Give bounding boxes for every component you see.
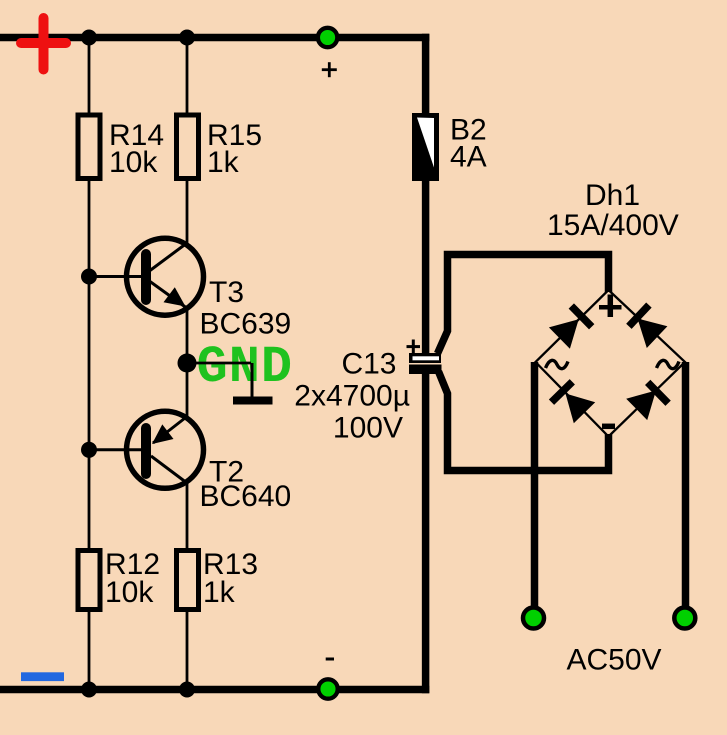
wire: left rail segment R14 to R12 xyxy=(88,180,91,549)
svg-text:BC639: BC639 xyxy=(200,308,292,341)
svg-text:1k: 1k xyxy=(203,576,236,609)
wire: T2 collector to R13 xyxy=(186,481,189,549)
ground xyxy=(233,397,273,405)
diode lower-left (from minus) xyxy=(566,394,596,424)
wire: top positive rail xyxy=(0,34,429,42)
node: top green terminal xyxy=(318,28,337,47)
diode lower-right (from minus) xyxy=(626,391,656,421)
svg-text:10k: 10k xyxy=(105,576,154,609)
svg-text:AC50V: AC50V xyxy=(567,644,662,677)
fuse B2 xyxy=(412,113,439,181)
wire: main vertical (fuse/cap branch) upper part xyxy=(422,34,430,355)
wire: T3 base connection xyxy=(89,275,146,278)
junction: top rail / right rail xyxy=(179,30,195,46)
wire: AC right lead xyxy=(682,362,690,608)
label minus inside bridge xyxy=(602,424,615,430)
wire: T2 base connection xyxy=(89,448,146,451)
junction: T2 base xyxy=(81,442,97,458)
wire: AC left lead xyxy=(531,362,539,608)
svg-text:C13: C13 xyxy=(341,348,396,381)
wire: diamond edges xyxy=(536,290,686,437)
svg-text:1k: 1k xyxy=(207,146,240,179)
svg-text:BC640: BC640 xyxy=(200,480,292,513)
label small minus at bottom node xyxy=(326,658,334,661)
svg-text:15A/400V: 15A/400V xyxy=(547,209,679,242)
wire: right rail segment R15 to T3 xyxy=(186,180,189,244)
wire: bottom negative rail xyxy=(0,686,429,694)
wire: branch to bridge plus (diagonal, up, right, down) xyxy=(438,255,609,354)
svg-text:4A: 4A xyxy=(450,141,487,174)
wire: T3 emitter to T2 collector (through GND node) xyxy=(186,306,189,418)
svg-text:100V: 100V xyxy=(333,412,403,445)
terminal: red plus (positive output) xyxy=(21,18,66,70)
label plus inside bridge xyxy=(599,295,622,318)
bridge rectifier Dh1 xyxy=(536,290,686,437)
resistor R13 xyxy=(177,551,199,610)
svg-text:Dh1: Dh1 xyxy=(585,179,640,212)
node: AC left terminal xyxy=(523,608,544,629)
wire: GND stub horizontal xyxy=(187,362,251,365)
diode upper-left (to plus) xyxy=(549,319,579,349)
resistor R14 xyxy=(78,115,100,179)
resistor R12 xyxy=(78,551,100,610)
svg-text:10k: 10k xyxy=(109,146,158,179)
junction: bottom rail / left rail xyxy=(81,682,97,698)
transistor T3 BC639 xyxy=(127,238,204,315)
diode upper-right (to plus) xyxy=(638,319,668,349)
terminal: blue minus (negative output) xyxy=(21,672,64,681)
wire: main vertical lower part xyxy=(422,366,430,693)
junction: T3 base xyxy=(81,269,97,285)
junction: bottom rail / right rail xyxy=(179,682,195,698)
transistor T2 BC640 xyxy=(127,411,204,488)
label tilde left AC input xyxy=(546,360,569,368)
wire: below R13 to bottom rail xyxy=(186,611,189,690)
node: AC right terminal xyxy=(674,608,695,629)
label tilde right AC input xyxy=(657,360,680,368)
svg-text:GND: GND xyxy=(197,338,294,397)
wire: left rail segment above R14 xyxy=(88,38,91,115)
svg-text:T3: T3 xyxy=(209,276,244,309)
svg-text:2x4700µ: 2x4700µ xyxy=(294,380,410,413)
wire: right rail segment above R15 xyxy=(186,38,189,115)
node: bottom green terminal xyxy=(318,679,337,698)
wire: GND stub vertical xyxy=(251,363,254,398)
resistor R15 xyxy=(177,115,199,179)
capacitor C13 xyxy=(407,340,442,375)
junction: GND node dot xyxy=(178,354,197,373)
wire: left rail segment below R12 xyxy=(88,611,91,690)
wire: branch from bridge minus (diagonal, down, right, up) xyxy=(439,372,609,471)
label small plus at top node xyxy=(322,62,337,77)
junction: top rail / left rail xyxy=(81,30,97,46)
